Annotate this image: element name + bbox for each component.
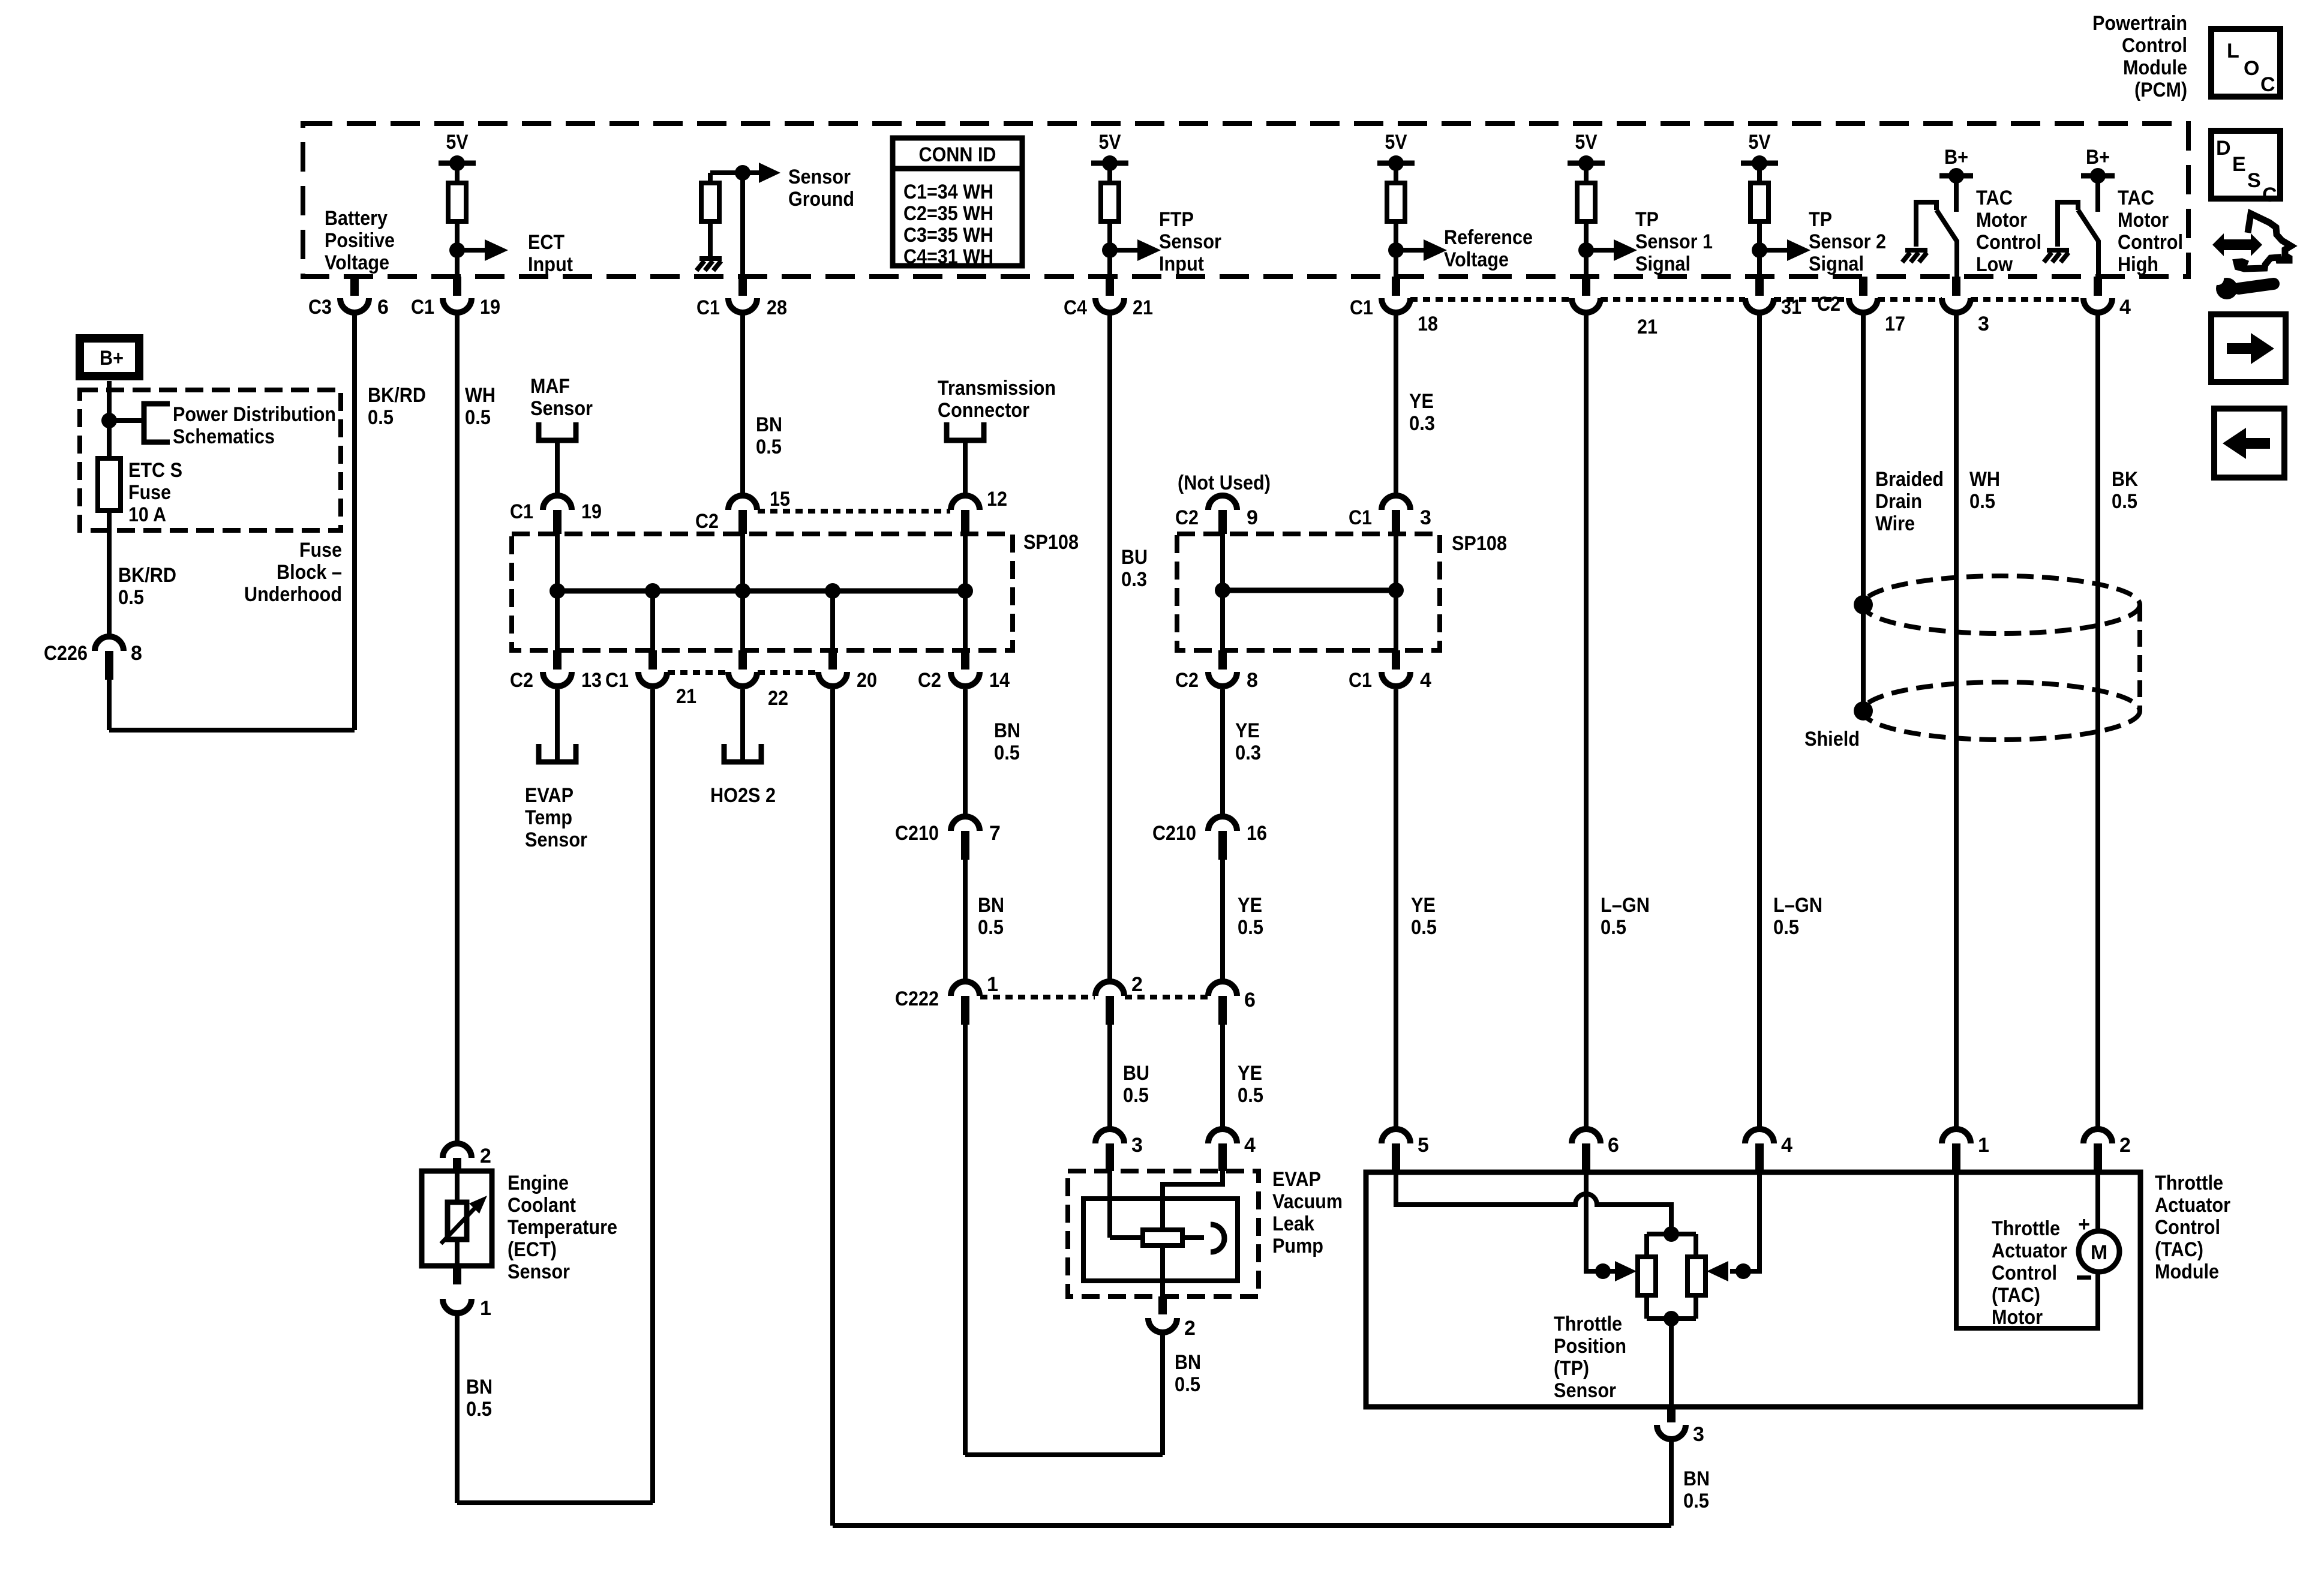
svg-text:6: 6 [1244, 989, 1256, 1011]
svg-text:BU: BU [1121, 546, 1148, 569]
ground (TAC high driver) [2047, 248, 2069, 253]
svg-text:Sensor: Sensor [530, 397, 593, 420]
svg-text:Leak: Leak [1272, 1212, 1314, 1235]
wire BU 0.5 to EVAP pump pin 3 [1107, 1025, 1112, 1129]
dotted line C222 [980, 995, 1095, 999]
connector pin 31 (TP2) [1755, 277, 1764, 296]
svg-text:14: 14 [989, 669, 1010, 692]
svg-text:S: S [2247, 169, 2261, 192]
wire sensor ground to C1/28 [740, 173, 745, 277]
connector pin 22 [738, 650, 747, 670]
svg-text:Sensor 1: Sensor 1 [1635, 230, 1713, 253]
wire braided drain [1861, 313, 1866, 711]
component EVAP vacuum leak pump (dashed) [1068, 1171, 1259, 1296]
connector ECT pin 2 [443, 1143, 472, 1158]
connector C1 pin 4 [1392, 650, 1400, 670]
svg-text:C4: C4 [1064, 296, 1087, 319]
wire fuse block bottom run [109, 728, 355, 733]
thermistor symbol [455, 1171, 460, 1202]
svg-text:Power Distribution: Power Distribution [173, 403, 336, 426]
wire BN 0.5 TP return [1669, 1439, 1674, 1526]
wire B+ to fuse [107, 381, 112, 458]
junction power distribution tap [101, 413, 117, 428]
connector TAC pin 5 [1382, 1129, 1410, 1143]
svg-text:7: 7 [989, 822, 1001, 845]
svg-text:0.5: 0.5 [1683, 1490, 1709, 1512]
arrow Reference Voltage [1396, 248, 1425, 253]
svg-text:3: 3 [1693, 1423, 1704, 1446]
svg-text:BK/RD: BK/RD [368, 384, 426, 407]
wire BN 0.5 ECT return [455, 1313, 460, 1503]
wire YE 0.5 reference to TAC [1394, 689, 1398, 1129]
svg-text:Signal: Signal [1635, 253, 1691, 275]
svg-text:Schematics: Schematics [173, 425, 275, 448]
svg-text:Fuse: Fuse [299, 539, 342, 562]
svg-text:Control: Control [2155, 1216, 2220, 1239]
svg-text:9: 9 [1247, 506, 1258, 529]
connector C222 pin 1 [951, 981, 980, 996]
connector pin 3 (TAC low) [1952, 277, 1960, 296]
svg-text:0.5: 0.5 [1969, 490, 1995, 513]
svg-text:C2: C2 [1817, 293, 1840, 316]
svg-text:8: 8 [1247, 669, 1258, 692]
svg-text:ETC S: ETC S [128, 459, 182, 482]
svg-text:(TAC): (TAC) [1992, 1284, 2040, 1307]
svg-text:(ECT): (ECT) [508, 1238, 557, 1261]
svg-text:1: 1 [480, 1297, 491, 1320]
wire to EVAP temp sensor [555, 689, 560, 762]
connector EVAP pump pin 2 [1158, 1296, 1167, 1314]
wire BN 0.5 sensor ground [740, 313, 745, 496]
svg-text:10 A: 10 A [128, 503, 166, 526]
icon LOC box [2211, 29, 2280, 97]
svg-text:Module: Module [2123, 56, 2187, 79]
svg-text:Coolant: Coolant [508, 1194, 576, 1217]
svg-text:5: 5 [1418, 1134, 1429, 1157]
svg-text:Control: Control [2122, 34, 2187, 57]
svg-text:2: 2 [2119, 1134, 2131, 1157]
svg-text:3: 3 [1978, 313, 1989, 335]
wire bottom run ECT to pin 21 [457, 1500, 653, 1505]
svg-text:FTP: FTP [1159, 208, 1194, 231]
svg-text:C2: C2 [510, 669, 533, 692]
shield side [2137, 605, 2142, 711]
svg-text:L–GN: L–GN [1773, 894, 1822, 917]
svg-text:0.5: 0.5 [118, 586, 144, 609]
svg-text:C226: C226 [44, 642, 88, 665]
svg-text:EVAP: EVAP [525, 784, 574, 807]
svg-text:C1: C1 [696, 296, 720, 319]
svg-text:Braided: Braided [1875, 468, 1944, 491]
ground (PCM sensor ground) [699, 256, 722, 261]
svg-text:C2=35 WH: C2=35 WH [903, 202, 993, 225]
svg-text:2: 2 [1131, 973, 1143, 996]
wire fuse to C226 [107, 511, 112, 637]
component ECT sensor box [422, 1171, 492, 1266]
svg-text:21: 21 [1133, 296, 1153, 319]
svg-text:C1: C1 [411, 296, 434, 319]
svg-text:5V: 5V [1575, 131, 1598, 154]
PCM module dashed border [303, 124, 2188, 277]
svg-text:Powertrain: Powertrain [2092, 12, 2187, 35]
connector C2 pin 17 (drain) [1859, 277, 1867, 296]
svg-text:20: 20 [857, 669, 877, 692]
svg-text:4: 4 [1244, 1134, 1256, 1157]
connector C1 pin 21 (below SP108) [648, 650, 657, 670]
wire BU 0.3 FTP [1107, 313, 1112, 981]
svg-text:Temperature: Temperature [508, 1216, 617, 1239]
svg-text:C3=35 WH: C3=35 WH [903, 224, 993, 247]
connector C1 pin 28 [738, 277, 747, 296]
svg-text:6: 6 [1608, 1134, 1619, 1157]
svg-text:Motor: Motor [2118, 209, 2169, 232]
connector C2 pin 8 [1218, 650, 1227, 670]
svg-text:19: 19 [581, 500, 602, 523]
wire BN 0.5 to C222 [963, 860, 968, 981]
connector C1 pin 21 (TP1) [1582, 277, 1590, 296]
svg-text:Input: Input [1159, 253, 1204, 275]
svg-text:2: 2 [480, 1145, 491, 1167]
connector pin 4 (TAC high) [2094, 277, 2102, 296]
svg-text:Block –: Block – [277, 561, 342, 584]
svg-text:Module: Module [2155, 1260, 2219, 1283]
svg-text:YE: YE [1238, 894, 1262, 917]
svg-text:M: M [2091, 1241, 2107, 1264]
svg-text:C210: C210 [895, 822, 939, 845]
svg-text:Sensor: Sensor [508, 1260, 570, 1283]
connector C2 pin 15 [728, 496, 757, 510]
wire bottom run to TP pin 3 [833, 1523, 1671, 1528]
wire YE 0.5 to C222 [1220, 860, 1225, 981]
svg-text:C1=34 WH: C1=34 WH [903, 181, 993, 203]
arrow FTP Sensor Input [1110, 248, 1139, 253]
svg-text:C2: C2 [1175, 669, 1199, 692]
svg-text:4: 4 [1420, 669, 1431, 692]
svg-text:TAC: TAC [1976, 187, 2013, 209]
wire transmission to pin 12 [963, 440, 968, 496]
wire to power distribution tag [109, 418, 144, 423]
svg-text:Throttle: Throttle [2155, 1172, 2223, 1194]
connector C1 pin 19 (MAF) [543, 496, 572, 510]
svg-text:5V: 5V [446, 131, 469, 154]
svg-text:C1: C1 [510, 500, 533, 523]
ground (TAC low driver) [1905, 248, 1927, 253]
svg-text:5V: 5V [1749, 131, 1771, 154]
svg-text:C3: C3 [308, 296, 332, 319]
wire TAC pin 4 wiper [1730, 1172, 1759, 1271]
wire WH 0.5 TAC low [1954, 313, 1959, 1129]
CONN ID table [893, 138, 1022, 266]
svg-text:Voltage: Voltage [325, 251, 389, 274]
svg-text:E: E [2232, 153, 2246, 176]
svg-text:22: 22 [768, 687, 788, 710]
svg-text:0.5: 0.5 [1238, 1084, 1263, 1107]
svg-text:21: 21 [1637, 316, 1658, 338]
svg-text:1: 1 [1978, 1134, 1989, 1157]
svg-text:1: 1 [987, 973, 998, 996]
svg-text:0.5: 0.5 [1773, 916, 1799, 939]
wire BN 0.5 EVAP pump return [1160, 1332, 1165, 1455]
icon DESC box [2211, 131, 2280, 199]
svg-text:Wire: Wire [1875, 512, 1915, 535]
switch TAC motor control low [1916, 202, 1936, 247]
connector pin 20 [828, 650, 837, 670]
svg-text:4: 4 [2119, 296, 2131, 319]
svg-text:3: 3 [1420, 506, 1431, 529]
svg-text:Sensor: Sensor [788, 166, 851, 188]
wire bottom run to EVAP pump pin 2 [965, 1452, 1163, 1457]
svg-text:YE: YE [1238, 1062, 1262, 1085]
svg-text:Low: Low [1976, 253, 2013, 276]
svg-text:18: 18 [1418, 313, 1438, 335]
splice bar SP108 right [1223, 588, 1396, 593]
svg-text:C2: C2 [695, 510, 719, 533]
splice bar SP108 [557, 589, 965, 594]
svg-text:(Not Used): (Not Used) [1178, 472, 1271, 494]
arrow ECT Input [457, 248, 486, 253]
connector TAC pin 6 [1572, 1129, 1601, 1143]
throttle position sensor [1647, 1232, 1696, 1236]
svg-text:TAC: TAC [2118, 187, 2154, 209]
svg-text:SP108: SP108 [1452, 532, 1507, 555]
connector C2 pin 13 [553, 650, 562, 670]
svg-text:0.5: 0.5 [994, 742, 1020, 764]
svg-text:C2: C2 [918, 669, 941, 692]
icon connector outline [2236, 214, 2291, 269]
svg-text:High: High [2118, 253, 2158, 276]
svg-text:Drain: Drain [1875, 490, 1922, 513]
svg-text:0.5: 0.5 [978, 916, 1004, 939]
wire BK 0.5 TAC high [2095, 313, 2100, 1129]
svg-text:WH: WH [465, 384, 496, 407]
svg-text:Underhood: Underhood [244, 583, 342, 606]
fuse ETC S 10A [98, 458, 121, 511]
svg-text:6: 6 [377, 296, 389, 319]
svg-text:Engine: Engine [508, 1172, 569, 1194]
shield ellipse bottom [1863, 682, 2140, 740]
icon arrow right box [2211, 314, 2286, 382]
connector C1 pin 3 [1382, 496, 1410, 510]
svg-text:C1: C1 [1349, 669, 1372, 692]
svg-text:Reference: Reference [1444, 226, 1533, 249]
svg-text:TP: TP [1635, 208, 1659, 231]
component transmission connector [947, 422, 984, 440]
svg-text:4: 4 [1781, 1134, 1792, 1157]
svg-text:BK/RD: BK/RD [118, 564, 176, 587]
svg-text:Sensor 2: Sensor 2 [1809, 230, 1886, 253]
svg-text:BK: BK [2112, 468, 2138, 491]
junction drain to shield top [1854, 595, 1873, 614]
svg-text:13: 13 [581, 669, 602, 692]
svg-text:Control: Control [2118, 231, 2183, 254]
svg-text:Voltage: Voltage [1444, 248, 1509, 271]
svg-text:BN: BN [994, 719, 1020, 742]
svg-text:28: 28 [767, 296, 787, 319]
wire TAC pin 6 wiper [1586, 1172, 1616, 1271]
svg-text:Motor: Motor [1992, 1306, 2043, 1329]
svg-text:Temp: Temp [525, 806, 572, 829]
svg-text:C222: C222 [895, 987, 939, 1010]
svg-text:0.5: 0.5 [756, 436, 782, 458]
svg-text:0.5: 0.5 [1238, 916, 1263, 939]
svg-text:Shield: Shield [1804, 728, 1860, 751]
connector C226 pin 8 [95, 637, 124, 651]
motor M circle [2079, 1231, 2119, 1272]
svg-text:0.3: 0.3 [1409, 412, 1435, 435]
connector C2 pin 14 [961, 650, 969, 670]
svg-text:21: 21 [676, 685, 696, 708]
svg-text:0.5: 0.5 [465, 406, 491, 429]
component MAF sensor [539, 422, 576, 440]
svg-text:C210: C210 [1152, 822, 1196, 845]
EVAP pump internals [1107, 1171, 1112, 1238]
svg-text:Ground: Ground [788, 188, 854, 211]
svg-text:Throttle: Throttle [1554, 1313, 1622, 1335]
svg-text:Sensor: Sensor [1554, 1379, 1616, 1402]
svg-text:15: 15 [770, 488, 790, 511]
svg-text:Sensor: Sensor [525, 828, 587, 851]
svg-text:Actuator: Actuator [1992, 1239, 2067, 1262]
connector C1 pin 18 [1392, 277, 1400, 296]
svg-text:C1: C1 [1350, 296, 1373, 319]
EVAP pump inner box [1083, 1199, 1238, 1281]
svg-text:12: 12 [987, 488, 1007, 511]
icon wrench [2239, 284, 2274, 289]
svg-text:0.5: 0.5 [1601, 916, 1626, 939]
svg-text:YE: YE [1235, 719, 1260, 742]
svg-text:0.5: 0.5 [2112, 490, 2137, 513]
icon arrow left box [2214, 409, 2284, 478]
svg-text:0.5: 0.5 [1123, 1084, 1149, 1107]
svg-text:Connector: Connector [938, 399, 1029, 422]
svg-text:Battery: Battery [325, 207, 388, 230]
arrow TP Sensor 2 Signal [1759, 248, 1788, 253]
svg-text:Control: Control [1992, 1262, 2057, 1284]
svg-text:Pump: Pump [1272, 1235, 1323, 1257]
svg-text:YE: YE [1409, 390, 1434, 413]
label - motor [2077, 1275, 2091, 1280]
junction sensor ground [735, 165, 750, 181]
svg-text:C1: C1 [1349, 506, 1372, 529]
wire BN 0.5 to EVAP pump [963, 1025, 968, 1455]
wire YE 0.3 reference [1394, 313, 1398, 496]
svg-text:+: + [2078, 1213, 2090, 1236]
svg-text:0.3: 0.3 [1235, 742, 1261, 764]
power distribution bracket [144, 404, 170, 442]
connector TAC pin 3 [1667, 1407, 1676, 1422]
svg-text:L: L [2227, 40, 2239, 62]
connector TAC pin 4 [1745, 1129, 1774, 1143]
svg-text:Position: Position [1554, 1335, 1626, 1358]
svg-text:BN: BN [466, 1376, 493, 1398]
svg-text:2: 2 [1184, 1317, 1196, 1340]
wire YE 0.3 below C2/8 [1220, 689, 1225, 816]
connector C1 pin 19 (ECT) [453, 277, 461, 296]
svg-text:MAF: MAF [530, 375, 570, 398]
connector C222 pin 2 [1095, 981, 1124, 996]
sensor ground pull-down resistor [710, 170, 743, 175]
svg-text:5V: 5V [1099, 131, 1121, 154]
svg-text:BN: BN [978, 894, 1004, 917]
icon double arrow [2212, 233, 2262, 256]
connector C210 pin 16 [1208, 816, 1237, 831]
connector C2 pin 9 [1208, 496, 1237, 510]
connector EVAP pump pin 4 [1208, 1129, 1237, 1143]
arrow Sensor Ground [743, 170, 761, 175]
component TAC module box [1366, 1172, 2140, 1407]
svg-text:Throttle: Throttle [1992, 1217, 2060, 1240]
wire BK/RD 0.5 to fuse block [352, 313, 357, 730]
svg-text:0.5: 0.5 [1175, 1373, 1200, 1396]
wire to HO2S 2 [740, 689, 745, 762]
component EVAP temp sensor [539, 744, 576, 762]
svg-text:3: 3 [1131, 1134, 1143, 1157]
svg-text:Control: Control [1976, 231, 2041, 254]
svg-text:YE: YE [1411, 894, 1436, 917]
wire L-GN 0.5 TP sensor 2 [1757, 313, 1762, 1129]
svg-text:BN: BN [1683, 1467, 1710, 1490]
svg-text:SP108: SP108 [1023, 531, 1079, 554]
svg-text:O: O [2244, 57, 2259, 80]
wire L-GN 0.5 TP sensor 1 [1584, 313, 1589, 1129]
component TAC motor box [1956, 1172, 2098, 1328]
svg-text:17: 17 [1885, 313, 1905, 335]
svg-text:Input: Input [528, 253, 573, 276]
wire MAF to connector [555, 440, 560, 496]
svg-text:WH: WH [1969, 468, 2000, 491]
wire TAC pin 5 to TP sensor [1396, 1172, 1671, 1234]
shield ellipse top [1863, 576, 2140, 634]
svg-text:CONN ID: CONN ID [919, 143, 996, 166]
connector C210 pin 7 [951, 816, 980, 831]
svg-text:BN: BN [1175, 1351, 1201, 1374]
power distribution dashed box [80, 390, 341, 530]
splice pack SP108 box [512, 534, 1013, 650]
wire TAC pin 2 to motor [2095, 1172, 2100, 1231]
svg-text:B+: B+ [2086, 146, 2110, 169]
svg-text:C2: C2 [1175, 506, 1199, 529]
connector C222 pin 6 [1208, 981, 1237, 996]
component HO2S 2 [724, 744, 761, 762]
dotted line pins 21-22-20 [668, 670, 728, 675]
svg-text:19: 19 [480, 296, 500, 319]
connector C4 pin 21 [1106, 277, 1114, 296]
svg-text:8: 8 [131, 642, 142, 665]
svg-text:Vacuum: Vacuum [1272, 1190, 1343, 1213]
svg-text:BN: BN [756, 413, 782, 436]
svg-text:B+: B+ [100, 347, 124, 370]
wire BN 0.5 below C2/14 [963, 689, 968, 816]
svg-text:C: C [2262, 184, 2277, 206]
wire WH 0.5 to ECT sensor [455, 313, 460, 1143]
dotted line C2/15 to 12 [758, 509, 950, 514]
splice pack SP108 box (right) [1177, 534, 1440, 650]
wire pin 21 to ECT return [650, 689, 655, 1503]
wire C226 to junction [107, 680, 112, 730]
svg-text:ECT: ECT [528, 231, 565, 254]
connector ECT pin 1 [453, 1266, 461, 1284]
svg-text:D: D [2216, 137, 2231, 160]
arrow TP Sensor 1 Signal [1586, 248, 1615, 253]
svg-text:0.5: 0.5 [466, 1398, 492, 1421]
B+ terminal box [80, 338, 139, 376]
svg-text:(TAC): (TAC) [2155, 1238, 2203, 1261]
svg-text:Sensor: Sensor [1159, 230, 1221, 253]
svg-text:C1: C1 [605, 669, 629, 692]
svg-text:B+: B+ [1944, 146, 1968, 169]
svg-text:16: 16 [1247, 822, 1267, 845]
svg-text:(PCM): (PCM) [2134, 79, 2187, 101]
